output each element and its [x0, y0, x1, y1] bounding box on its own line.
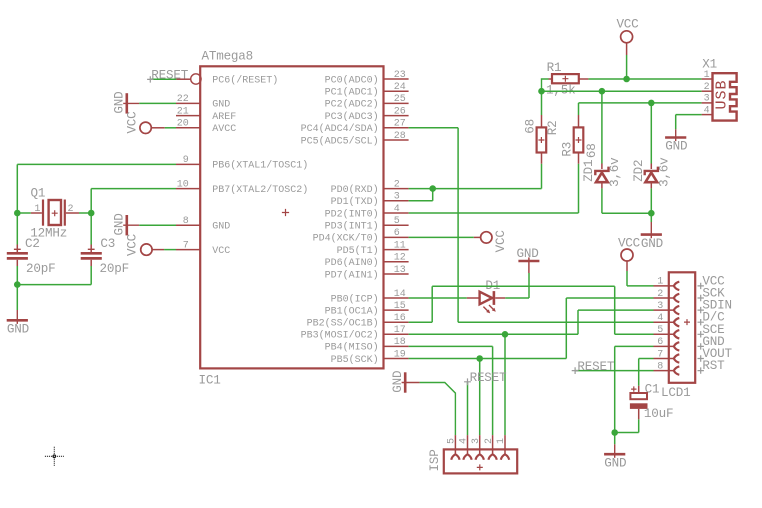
svg-text:VCC: VCC	[125, 111, 139, 134]
wire cap commons	[17, 284, 91, 286]
svg-text:GND: GND	[517, 247, 539, 261]
wire LCD GND net	[615, 346, 654, 432]
svg-text:16: 16	[394, 313, 406, 324]
wire XTAL2 (pin10 to crystal)	[91, 189, 176, 213]
IC1 pin 9 PB6(XTAL1/TOSC1) (left)	[176, 155, 308, 172]
svg-text:11: 11	[394, 240, 406, 251]
svg-text:4: 4	[394, 204, 400, 215]
ground GND (ISP pin5)	[391, 371, 455, 435]
svg-text:68: 68	[523, 119, 537, 134]
junction D+/ZD2 node	[648, 100, 655, 107]
wire LCD VOUT to C1	[639, 359, 654, 386]
svg-text:6: 6	[394, 228, 400, 239]
junction zener-gnd node	[648, 210, 655, 217]
supply VCC (pin 20 AVCC)	[125, 111, 176, 134]
svg-text:PB0(ICP): PB0(ICP)	[331, 293, 379, 305]
svg-text:PB3(MOSI/OC2): PB3(MOSI/OC2)	[301, 330, 379, 342]
svg-text:8: 8	[657, 361, 663, 372]
junction VCC/USB1 node	[623, 76, 630, 83]
junction XTAL1 node	[14, 210, 21, 217]
svg-text:1,5k: 1,5k	[546, 83, 575, 97]
wire VCC row to USB pin1	[588, 78, 701, 80]
svg-text:GND: GND	[113, 213, 127, 235]
svg-text:GND: GND	[113, 92, 127, 114]
svg-text:PC2(ADC2): PC2(ADC2)	[325, 99, 379, 111]
wire PC4 to LCD D/C	[409, 128, 654, 322]
connector ISP	[428, 435, 517, 473]
resistor R1	[546, 61, 588, 98]
svg-text:4: 4	[657, 313, 663, 324]
crystal Q1	[17, 187, 91, 241]
ground GND (pin 8)	[113, 213, 176, 235]
IC1 pin 26 PC3(ADC3) (right)	[325, 106, 409, 123]
svg-text:3,6v: 3,6v	[658, 157, 672, 187]
svg-text:PC5(ADC5/SCL): PC5(ADC5/SCL)	[301, 135, 379, 147]
svg-text:6: 6	[657, 337, 663, 348]
svg-text:PC0(ADC0): PC0(ADC0)	[325, 74, 379, 86]
svg-text:GND: GND	[665, 140, 687, 154]
IC1 pin 23 PC0(ADC0) (right)	[325, 70, 409, 87]
svg-text:R2: R2	[546, 121, 560, 136]
junction MOSI/ISP1 node	[502, 331, 509, 338]
svg-text:25: 25	[394, 94, 406, 105]
svg-text:R3: R3	[560, 142, 574, 157]
svg-text:12: 12	[394, 253, 406, 264]
svg-text:10uF: 10uF	[644, 407, 673, 421]
svg-text:3: 3	[704, 94, 710, 105]
svg-text:RST: RST	[702, 359, 725, 373]
svg-text:21: 21	[177, 106, 189, 117]
ground GND (LCD/C1)	[604, 433, 626, 471]
svg-text:20pF: 20pF	[26, 262, 55, 276]
svg-text:PD5(T1): PD5(T1)	[337, 245, 379, 257]
resistor R3	[560, 103, 598, 164]
IC1 pin 28 PC5(ADC5/SCL) (right)	[301, 131, 409, 148]
connector LCD1	[654, 272, 733, 400]
svg-text:C3: C3	[100, 237, 115, 251]
wire net D- (to USB pin2)	[542, 90, 702, 92]
wire C1 bottom to gnd node	[615, 419, 639, 432]
svg-text:RESET: RESET	[577, 360, 614, 374]
wire XTAL1 (pin9 to crystal)	[17, 164, 176, 213]
svg-text:27: 27	[394, 119, 406, 130]
svg-text:3,6v: 3,6v	[608, 157, 622, 187]
svg-text:PB5(SCK): PB5(SCK)	[331, 354, 379, 366]
net label RESET (ISP pin4)	[464, 371, 507, 435]
svg-text:AVCC: AVCC	[212, 124, 236, 135]
svg-text:PB1(OC1A): PB1(OC1A)	[325, 305, 379, 317]
svg-text:VCC: VCC	[212, 246, 230, 257]
svg-text:23: 23	[394, 70, 406, 81]
svg-text:2: 2	[484, 438, 495, 444]
svg-text:PB7(XTAL2/TOSC2): PB7(XTAL2/TOSC2)	[212, 184, 308, 196]
svg-text:24: 24	[394, 82, 406, 93]
svg-text:1: 1	[496, 438, 507, 444]
supply VCC (PD4)	[409, 230, 508, 253]
wire net D+ (to USB pin3)	[579, 102, 702, 104]
svg-text:8: 8	[183, 216, 189, 227]
ground GND (USB pin4)	[665, 115, 702, 154]
svg-text:PC4(ADC4/SDA): PC4(ADC4/SDA)	[301, 123, 379, 135]
svg-text:22: 22	[177, 94, 189, 105]
cursor crosshair	[45, 447, 64, 466]
IC1 pin 11 PD5(T1) (right)	[337, 240, 409, 257]
IC1 pin 6 PD4(XCK/T0) (right)	[313, 228, 409, 245]
svg-text:PB2(SS/OC1B): PB2(SS/OC1B)	[307, 318, 379, 330]
svg-text:GND: GND	[212, 100, 230, 111]
svg-text:10: 10	[177, 179, 189, 190]
svg-text:VCC: VCC	[616, 18, 639, 32]
svg-text:GND: GND	[604, 456, 626, 470]
svg-text:9: 9	[183, 155, 189, 166]
wire SCK to ISP pin3	[479, 359, 481, 436]
svg-text:GND: GND	[7, 323, 29, 337]
svg-text:PD0(RXD): PD0(RXD)	[331, 184, 379, 196]
svg-text:13: 13	[394, 265, 406, 276]
svg-text:RESET: RESET	[151, 68, 188, 82]
IC1 pin 19 PB5(SCK) (right)	[331, 349, 409, 366]
svg-text:IC1: IC1	[199, 373, 221, 387]
svg-text:AREF: AREF	[212, 112, 236, 123]
wire R2 to PD0 row	[409, 164, 542, 189]
wire PB4/MISO to ISP pin2	[409, 346, 493, 435]
IC1 pin 2 PD0(RXD) (right)	[331, 179, 409, 196]
svg-text:LCD1: LCD1	[661, 386, 690, 400]
connector X1 USB	[702, 58, 737, 121]
net label RESET (LCD RST)	[572, 360, 654, 374]
capacitor C2	[7, 213, 56, 285]
wire PB5/SCK to ISP and LCD SCK	[409, 298, 654, 359]
IC1 pin 3 PD1(TXD) (right)	[331, 192, 409, 209]
junction PD0/PD1 node	[429, 185, 436, 192]
junction D-/ZD1 node	[599, 88, 606, 95]
svg-text:GND: GND	[391, 371, 405, 393]
svg-text:26: 26	[394, 106, 406, 117]
svg-text:GND: GND	[212, 222, 230, 233]
IC1 pin 13 PD7(AIN1) (right)	[325, 265, 409, 282]
svg-text:C2: C2	[25, 237, 40, 251]
ground GND (LED)	[517, 247, 540, 273]
svg-text:2: 2	[657, 289, 663, 300]
wire R3 to PD2 row	[409, 164, 579, 213]
IC1 pin 8 GND (left)	[176, 216, 230, 233]
supply VCC (top)	[616, 18, 639, 79]
svg-text:5: 5	[394, 216, 400, 227]
IC1 pin 7 VCC (left)	[176, 240, 230, 257]
svg-text:2: 2	[394, 179, 400, 190]
diode ZD2 zener 3,6v	[632, 157, 672, 189]
svg-text:PB4(MISO): PB4(MISO)	[325, 342, 379, 354]
junction gnd/C1 node	[611, 429, 618, 436]
svg-text:PD6(AIN0): PD6(AIN0)	[325, 257, 379, 269]
svg-text:2: 2	[68, 204, 74, 215]
svg-text:PC3(ADC3): PC3(ADC3)	[325, 111, 379, 123]
svg-text:4: 4	[704, 105, 710, 116]
supply VCC (pin 7)	[126, 233, 176, 256]
IC1 pin 14 PB0(ICP) (right)	[331, 289, 409, 306]
junction cap-gnd node	[14, 281, 21, 288]
svg-text:68: 68	[585, 143, 599, 158]
svg-text:PD4(XCK/T0): PD4(XCK/T0)	[313, 233, 379, 245]
svg-text:5: 5	[657, 325, 663, 336]
svg-text:20pF: 20pF	[100, 262, 129, 276]
net label RESET (PC6)	[147, 68, 190, 82]
IC1 pin 1 PC6(/RESET) (left)	[191, 74, 279, 87]
wire MOSI to ISP pin1	[504, 334, 506, 435]
svg-text:PD7(AIN1): PD7(AIN1)	[325, 269, 379, 281]
svg-text:7: 7	[657, 349, 663, 360]
resistor R2	[523, 91, 560, 164]
svg-text:R1: R1	[547, 61, 562, 75]
svg-text:PD2(INT0): PD2(INT0)	[325, 208, 379, 220]
svg-text:ISP: ISP	[428, 449, 442, 471]
IC U1 IC1 ATmega8 body	[199, 50, 384, 388]
svg-text:PD1(TXD): PD1(TXD)	[331, 196, 379, 208]
IC1 pin 12 PD6(AIN0) (right)	[325, 253, 409, 270]
wire ZD2 anode down	[650, 188, 652, 213]
capacitor C1 10uF	[630, 383, 673, 421]
svg-text:GND: GND	[641, 237, 663, 251]
svg-text:3: 3	[394, 192, 400, 203]
IC1 pin 22 GND (left)	[176, 94, 230, 111]
IC1 pin 27 PC4(ADC4/SDA) (right)	[301, 119, 409, 136]
svg-text:USB: USB	[714, 79, 731, 109]
ground GND (zeners)	[641, 213, 663, 251]
IC1 pin 15 PB1(OC1A) (right)	[325, 301, 409, 318]
IC1 pin 10 PB7(XTAL2/TOSC2) (left)	[176, 179, 308, 196]
supply VCC (LCD)	[618, 236, 654, 286]
svg-text:PC6(/RESET): PC6(/RESET)	[212, 74, 278, 86]
svg-text:RESET: RESET	[470, 371, 507, 385]
wire ZD1 riser	[601, 91, 603, 163]
svg-text:3: 3	[471, 438, 482, 444]
svg-text:ZD2: ZD2	[632, 160, 646, 182]
wire ZD2 riser	[650, 103, 652, 164]
svg-text:1: 1	[657, 277, 663, 288]
svg-text:3: 3	[657, 301, 663, 312]
wire LED cathode to GND	[505, 273, 529, 298]
junction D- node	[538, 88, 545, 95]
svg-text:4: 4	[459, 438, 470, 444]
svg-text:VCC: VCC	[494, 230, 508, 253]
ground GND (pin 22)	[113, 92, 176, 114]
svg-text:7: 7	[183, 240, 189, 251]
svg-text:VCC: VCC	[126, 233, 140, 256]
svg-text:1: 1	[34, 204, 40, 215]
svg-text:28: 28	[394, 131, 406, 142]
svg-text:ATmega8: ATmega8	[202, 50, 254, 64]
svg-text:2: 2	[704, 82, 710, 93]
IC1 pin 20 AVCC (left)	[176, 119, 236, 136]
wire R1 left to D- node	[542, 79, 549, 91]
capacitor C3	[81, 213, 129, 285]
wire ZD1 anode down	[602, 188, 651, 213]
svg-text:17: 17	[394, 325, 406, 336]
IC1 pin 25 PC2(ADC2) (right)	[325, 94, 409, 111]
svg-text:ZD1: ZD1	[582, 160, 596, 182]
IC1 pin 4 PD2(INT0) (right)	[325, 204, 409, 221]
svg-text:PB6(XTAL1/TOSC1): PB6(XTAL1/TOSC1)	[212, 160, 308, 172]
IC1 pin 17 PB3(MOSI/OC2) (right)	[301, 325, 409, 342]
svg-text:PD3(INT1): PD3(INT1)	[325, 221, 379, 233]
junction XTAL2 node	[88, 210, 95, 217]
IC1 pin 18 PB4(MISO) (right)	[325, 337, 409, 354]
IC1 pin 5 PD3(INT1) (right)	[325, 216, 409, 233]
IC1 pin 21 AREF (left)	[176, 106, 236, 123]
wire PB3/MOSI to ISP and LCD SDIN	[409, 310, 654, 334]
svg-text:18: 18	[394, 337, 406, 348]
diode ZD1 zener 3,6v	[582, 157, 622, 189]
svg-text:20: 20	[177, 119, 189, 130]
svg-text:PC1(ADC1): PC1(ADC1)	[325, 87, 379, 99]
wire PD1 jog	[409, 189, 433, 201]
IC1 pin 24 PC1(ADC1) (right)	[325, 82, 409, 99]
wire PB2 to LCD SCE	[409, 286, 654, 334]
junction SCK/ISP3 node	[476, 355, 483, 362]
svg-text:Q1: Q1	[31, 187, 46, 201]
svg-text:VCC: VCC	[618, 236, 641, 250]
IC1 pin 16 PB2(SS/OC1B) (right)	[307, 313, 409, 330]
svg-text:15: 15	[394, 301, 406, 312]
svg-text:5: 5	[447, 438, 458, 444]
svg-text:1: 1	[704, 70, 710, 81]
diode D1 LED	[409, 279, 506, 314]
svg-text:14: 14	[394, 289, 406, 300]
svg-text:19: 19	[394, 349, 406, 360]
ground GND (crystal caps)	[7, 285, 29, 337]
